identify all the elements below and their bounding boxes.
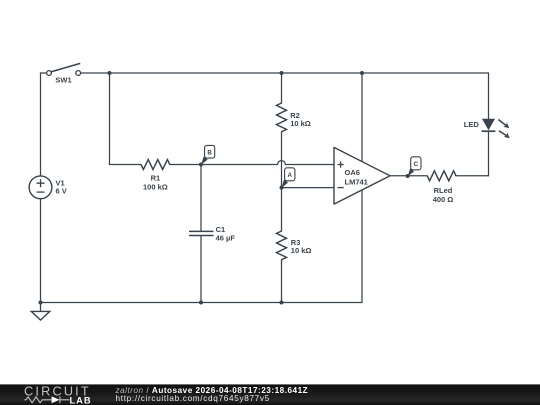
- svg-text:46 µF: 46 µF: [216, 233, 236, 242]
- node C flag: [408, 157, 421, 177]
- wire op-amp top supply: [361, 73, 363, 161]
- LED arrow 1: [498, 120, 506, 126]
- wire op-amp bottom supply: [361, 190, 363, 302]
- junction top rail at R1 drop: [108, 71, 112, 75]
- switch SW1: [47, 63, 81, 75]
- svg-text:100 kΩ: 100 kΩ: [143, 182, 168, 191]
- svg-text:C: C: [414, 161, 419, 168]
- wire R1 to op-amp plus with hop over R2 branch: [170, 161, 334, 165]
- resistor RLed: [427, 171, 456, 181]
- wire SW1 stub: [41, 72, 47, 74]
- junction node C: [406, 174, 410, 178]
- svg-text:RLed: RLed: [434, 186, 453, 195]
- wire LED bottom lead: [488, 131, 490, 176]
- wire R1 row left: [110, 164, 142, 166]
- svg-text:400 Ω: 400 Ω: [433, 195, 454, 204]
- wire top rail: [80, 72, 488, 74]
- LED diode: [482, 119, 510, 139]
- svg-text:B: B: [207, 150, 212, 157]
- junction node B: [199, 163, 203, 167]
- node A flag: [282, 168, 295, 188]
- wire R3 bottom lead: [281, 260, 283, 303]
- wire bottom rail: [41, 302, 363, 304]
- svg-text:R1: R1: [151, 173, 161, 182]
- svg-text:LAB: LAB: [70, 395, 92, 405]
- capacitor C1 plates: [189, 231, 214, 235]
- wire node A to op-amp minus: [282, 187, 335, 189]
- wire RLed to LED corner: [456, 175, 489, 177]
- svg-text:10 kΩ: 10 kΩ: [290, 119, 311, 128]
- junction bottom rail C1: [199, 301, 203, 305]
- svg-text:http://circuitlab.com/cdq7645y: http://circuitlab.com/cdq7645y877v5: [116, 394, 270, 403]
- svg-text:OA6: OA6: [345, 168, 360, 177]
- svg-text:10 kΩ: 10 kΩ: [291, 246, 312, 255]
- wire R2 top lead: [281, 73, 283, 103]
- wire junction drop to R1: [109, 73, 111, 165]
- junction node A: [280, 186, 284, 190]
- junction top rail at R2: [280, 71, 284, 75]
- wire C1 branch lower: [200, 236, 202, 303]
- wire C1 branch upper: [200, 165, 202, 232]
- svg-text:SW1: SW1: [55, 75, 71, 84]
- svg-text:LM741: LM741: [345, 177, 368, 186]
- footer logo resistor-diode glyph: [25, 396, 70, 403]
- LED arrow 2: [499, 131, 507, 136]
- resistor R2: [277, 103, 287, 132]
- wire op-amp output: [390, 175, 427, 177]
- wire LED top lead: [488, 73, 490, 119]
- resistor R3: [277, 231, 287, 260]
- wire R2 to R3 through node A: [281, 132, 283, 231]
- svg-text:A: A: [287, 172, 292, 179]
- wire ground stem: [40, 303, 42, 312]
- voltage source V1: [29, 176, 52, 199]
- svg-text:6 V: 6 V: [56, 186, 67, 195]
- junction bottom rail ground: [39, 301, 43, 305]
- svg-text:LED: LED: [464, 120, 480, 129]
- node B flag: [201, 145, 215, 164]
- wire left vertical V1 branch: [40, 73, 42, 303]
- resistor R1: [141, 160, 170, 170]
- junction bottom rail R3: [280, 301, 284, 305]
- ground: [31, 311, 50, 320]
- junction top rail at supply: [360, 71, 364, 75]
- footer bar: [0, 384, 540, 405]
- op-amp OA6: [334, 147, 390, 204]
